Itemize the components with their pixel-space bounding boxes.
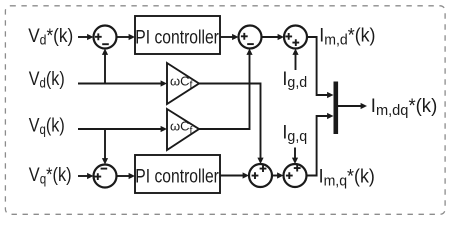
node Vd*(k) input label <box>28 25 73 48</box>
wire S3 output to mux (Im,d*) <box>307 37 334 98</box>
node Ig,q label <box>282 121 307 145</box>
summing junction S4 (+,-) <box>94 165 117 188</box>
summing junction S3 (+,+) <box>284 26 307 49</box>
svg-text:PI controller: PI controller <box>135 165 219 187</box>
svg-text:Vd*(k): Vd*(k) <box>28 25 73 48</box>
summing junction S5 (+,+) <box>249 164 272 187</box>
wire mux output arrow <box>338 103 367 109</box>
svg-text:Vd(k): Vd(k) <box>29 68 65 91</box>
gain block wCf (q) <box>167 109 199 150</box>
wire S5 to S6 <box>272 172 284 178</box>
node Vq*(k) input label <box>29 164 72 187</box>
block PI controller (q-axis) <box>135 155 220 193</box>
wire Ig,d up into S3 <box>292 49 298 71</box>
summing junction S6 (+,+) <box>284 164 307 187</box>
svg-text:Vq*(k): Vq*(k) <box>29 164 72 187</box>
block PI controller (d-axis) <box>135 16 220 54</box>
wire PI 1 to S2 <box>220 34 239 40</box>
node Im,q*(k) label <box>319 165 375 190</box>
wire Vd(k) to gain wCf 1 <box>78 80 167 86</box>
wire wCf(d) output down into S5 <box>199 84 264 165</box>
summing junction S1 (+,-) <box>94 26 117 49</box>
node Im,d*(k) label <box>319 24 375 49</box>
summing junction S2 (+,-) <box>239 26 262 49</box>
wire Vq(k) to gain wCf 2 <box>78 126 167 132</box>
node Vq(k) input label <box>29 114 65 137</box>
wire Vd feedback up into S1 <box>102 49 108 84</box>
gain block wCf (d) <box>167 63 199 104</box>
wire Vq feedback down into S4 <box>102 129 108 165</box>
wire S2 to S3 <box>262 34 285 40</box>
wire S6 output to mux (Im,q*) <box>307 113 334 176</box>
wire S4 to PI controller 2 <box>117 173 136 179</box>
wire S1 to PI controller 1 <box>117 34 136 40</box>
mux combiner bar <box>334 82 339 135</box>
node Vd(k) input label <box>29 68 65 91</box>
wire Ig,q down into S6 <box>292 148 298 165</box>
svg-text:Vq(k): Vq(k) <box>29 114 65 137</box>
wire wCf(q) output up into S2 <box>199 49 253 130</box>
wire Vq* input arrow <box>78 173 94 179</box>
wire PI 2 to S5 <box>220 172 249 178</box>
wire Vd* input arrow <box>78 34 94 40</box>
node Im,dq*(k) output label <box>371 95 437 119</box>
svg-text:PI controller: PI controller <box>135 26 219 48</box>
node Ig,d label <box>282 68 307 92</box>
